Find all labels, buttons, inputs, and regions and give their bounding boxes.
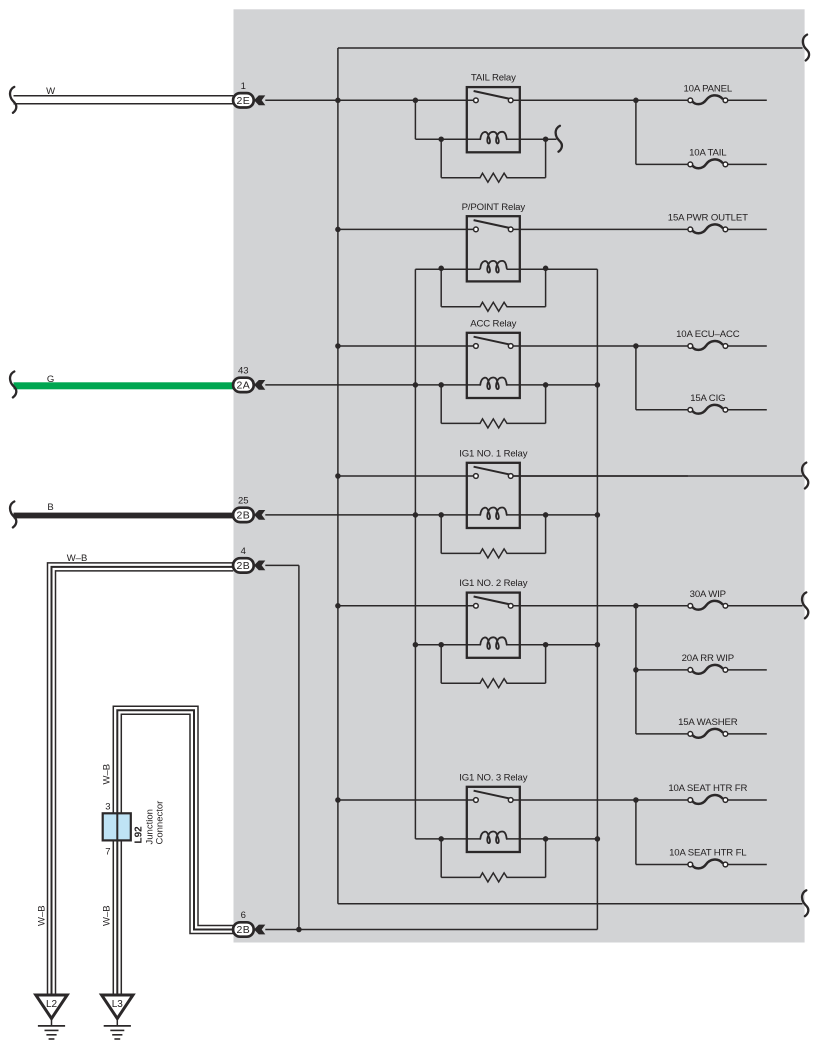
svg-text:43: 43 bbox=[238, 366, 249, 377]
svg-text:L3: L3 bbox=[112, 999, 124, 1010]
svg-text:ACC Relay: ACC Relay bbox=[470, 318, 516, 329]
svg-text:2B: 2B bbox=[237, 510, 251, 522]
svg-text:3: 3 bbox=[105, 802, 110, 813]
svg-text:IG1 NO. 3 Relay: IG1 NO. 3 Relay bbox=[459, 772, 527, 783]
svg-text:10A PANEL: 10A PANEL bbox=[683, 84, 732, 95]
svg-text:W: W bbox=[46, 86, 55, 97]
svg-text:4: 4 bbox=[241, 546, 246, 557]
svg-text:W–B: W–B bbox=[102, 764, 113, 785]
svg-text:15A CIG: 15A CIG bbox=[690, 393, 725, 404]
svg-text:2B: 2B bbox=[237, 560, 251, 572]
svg-text:6: 6 bbox=[241, 910, 246, 921]
svg-text:7: 7 bbox=[105, 847, 110, 858]
svg-text:G: G bbox=[47, 374, 54, 385]
svg-text:B: B bbox=[47, 502, 53, 513]
svg-text:10A TAIL: 10A TAIL bbox=[689, 148, 727, 159]
svg-text:10A SEAT HTR FR: 10A SEAT HTR FR bbox=[668, 783, 747, 794]
svg-text:P/POINT Relay: P/POINT Relay bbox=[462, 202, 526, 213]
svg-text:TAIL Relay: TAIL Relay bbox=[471, 73, 516, 84]
svg-text:IG1 NO. 2 Relay: IG1 NO. 2 Relay bbox=[459, 578, 527, 589]
svg-text:10A ECU–ACC: 10A ECU–ACC bbox=[676, 329, 740, 340]
svg-text:Connector: Connector bbox=[155, 801, 166, 845]
svg-text:2A: 2A bbox=[237, 380, 251, 392]
svg-text:L92: L92 bbox=[134, 826, 145, 844]
svg-text:W–B: W–B bbox=[37, 905, 48, 926]
svg-text:25: 25 bbox=[238, 496, 249, 507]
svg-text:10A SEAT HTR FL: 10A SEAT HTR FL bbox=[669, 848, 747, 859]
svg-text:30A WIP: 30A WIP bbox=[690, 589, 726, 600]
svg-text:1: 1 bbox=[241, 81, 246, 92]
svg-text:15A WASHER: 15A WASHER bbox=[678, 717, 738, 728]
svg-text:2E: 2E bbox=[237, 95, 251, 107]
svg-text:L2: L2 bbox=[46, 999, 58, 1010]
svg-text:W–B: W–B bbox=[102, 905, 113, 926]
svg-text:IG1 NO. 1 Relay: IG1 NO. 1 Relay bbox=[459, 448, 527, 459]
svg-text:W–B: W–B bbox=[67, 553, 88, 564]
svg-text:2B: 2B bbox=[237, 924, 251, 936]
svg-text:15A PWR OUTLET: 15A PWR OUTLET bbox=[668, 213, 748, 224]
svg-text:20A RR WIP: 20A RR WIP bbox=[682, 653, 734, 664]
